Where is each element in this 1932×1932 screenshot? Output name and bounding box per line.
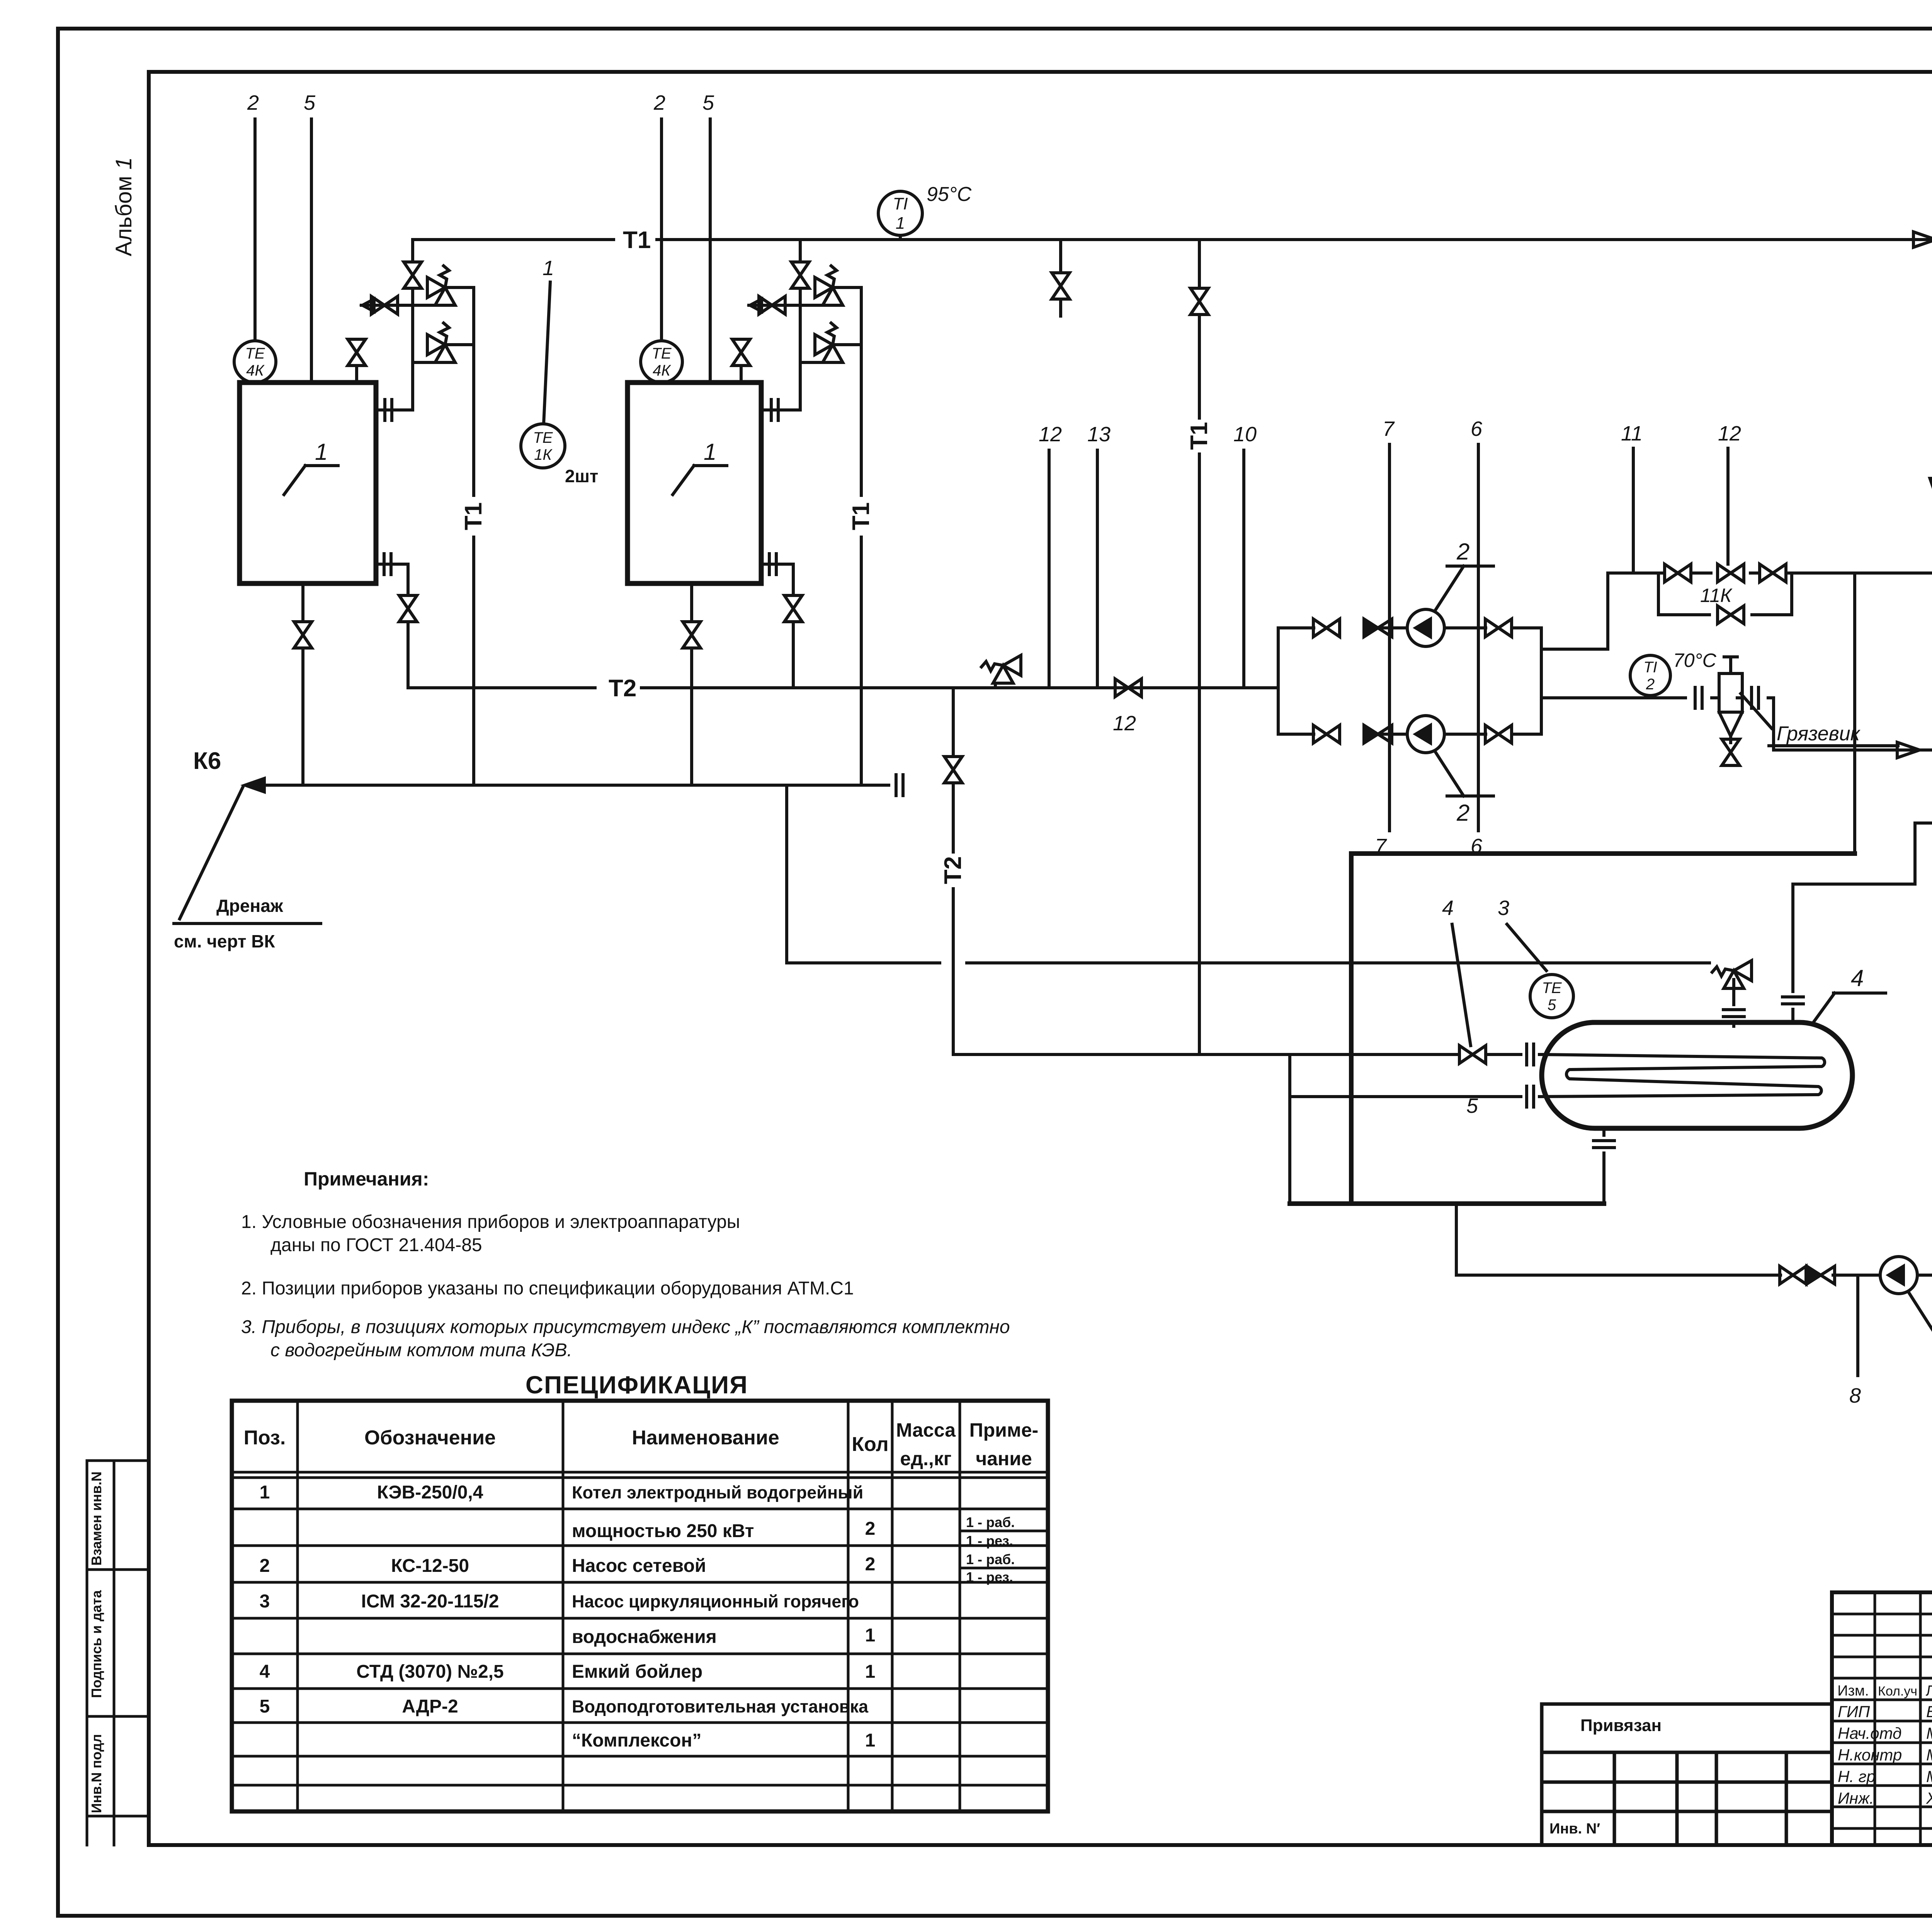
svg-text:11: 11 [1621, 422, 1643, 445]
circulation check valve [1807, 1266, 1835, 1284]
position line 10 [1233, 423, 1257, 688]
svg-text:4К: 4К [653, 362, 671, 379]
svg-text:1 - раб.: 1 - раб. [966, 1514, 1015, 1530]
svg-text:4: 4 [1851, 965, 1864, 991]
svg-text:Поз.: Поз. [244, 1427, 286, 1449]
position 4 tap [1442, 896, 1471, 1046]
svg-text:ГИП: ГИП [1838, 1702, 1870, 1721]
svg-text:1: 1 [260, 1482, 270, 1503]
T2 branch to tank coil [940, 688, 1542, 1065]
svg-text:2: 2 [653, 91, 665, 114]
pump 2 suction valve [1313, 725, 1340, 743]
svg-text:1: 1 [865, 1662, 876, 1682]
tank safety valve [1712, 961, 1752, 1026]
svg-text:Т2: Т2 [940, 856, 966, 884]
svg-text:мощностью 250 кВт: мощностью 250 кВт [572, 1521, 754, 1541]
svg-text:Кол.уч: Кол.уч [1878, 1684, 1917, 1699]
network pump 1 [1407, 609, 1444, 646]
boiler 2 top vent valve [732, 339, 750, 383]
svg-text:2: 2 [865, 1519, 876, 1539]
svg-text:2шт: 2шт [565, 466, 598, 486]
tank heating coil [1542, 1054, 1825, 1097]
boiler 1 top vent valve [348, 339, 366, 383]
svg-text:1: 1 [704, 439, 716, 465]
svg-text:Т1: Т1 [460, 502, 487, 530]
svg-text:Н. гр: Н. гр [1838, 1767, 1876, 1786]
svg-text:4: 4 [1442, 896, 1454, 920]
svg-text:ТЕ: ТЕ [245, 345, 265, 362]
T1 flow arrow left [1913, 232, 1932, 247]
pump 1 check valve [1364, 619, 1392, 637]
svg-text:2: 2 [1646, 676, 1655, 693]
svg-text:даны по ГОСТ 21.404-85: даны по ГОСТ 21.404-85 [270, 1235, 482, 1255]
pump 2 discharge valve [1485, 725, 1512, 743]
boiler 1 T1 riser with valve [404, 240, 422, 410]
K6 drain header [240, 775, 903, 796]
svg-text:5: 5 [260, 1696, 270, 1717]
boiler 2 line 5 [702, 91, 714, 383]
T3 hot water line [1915, 821, 1932, 825]
boiler 2 bottom outlet to T2 [761, 554, 802, 688]
pump 1 position callout [1436, 539, 1493, 609]
svg-text:Т1: Т1 [623, 227, 651, 253]
svg-text:IСМ 32-20-115/2: IСМ 32-20-115/2 [361, 1591, 499, 1612]
svg-text:Изм.: Изм. [1837, 1683, 1869, 1699]
storage tank [1542, 1022, 1852, 1128]
boiler 2 [628, 383, 761, 583]
svg-text:Бондорец: Бондорец [1926, 1702, 1932, 1721]
position line 13 [1087, 423, 1111, 688]
boiler 1 lower safety valve [413, 323, 474, 362]
TE5 instrument [1530, 975, 1573, 1018]
svg-text:Обозначение: Обозначение [364, 1427, 496, 1449]
svg-text:12: 12 [1113, 712, 1136, 735]
svg-text:водоснабжения: водоснабжения [572, 1627, 717, 1647]
svg-text:12: 12 [1039, 423, 1062, 446]
svg-text:5: 5 [1548, 997, 1556, 1014]
boiler 1 [240, 383, 376, 583]
suction branch to pump 3 [1456, 1204, 1880, 1275]
boiler 2 upper safety valve [800, 266, 861, 305]
T2 flow arrow right [1897, 742, 1920, 758]
svg-text:Н.контр: Н.контр [1838, 1746, 1902, 1764]
svg-text:4: 4 [260, 1662, 270, 1682]
svg-text:КС-12-50: КС-12-50 [391, 1556, 469, 1576]
svg-text:3. Приборы, в позициях которых: 3. Приборы, в позициях которых присутств… [241, 1317, 1010, 1337]
svg-text:Молчанов: Молчанов [1926, 1746, 1932, 1764]
boiler 2 line 2 [653, 91, 665, 341]
svg-text:2: 2 [1456, 800, 1469, 826]
svg-text:1: 1 [896, 214, 905, 233]
svg-text:1: 1 [865, 1730, 876, 1751]
svg-text:ТЕ: ТЕ [533, 429, 553, 446]
svg-text:Альбом 1: Альбом 1 [111, 157, 136, 256]
svg-text:5: 5 [702, 91, 714, 114]
svg-text:3: 3 [260, 1591, 270, 1612]
svg-text:см. черт ВК: см. черт ВК [174, 931, 275, 951]
svg-text:Инв. N′: Инв. N′ [1549, 1821, 1600, 1837]
svg-text:Молчанов: Молчанов [1926, 1724, 1932, 1742]
svg-text:1: 1 [543, 257, 554, 280]
boiler 2 lower safety valve [800, 323, 861, 362]
svg-text:Инв.N подл: Инв.N подл [88, 1734, 104, 1813]
left margin stamp boxes [87, 1461, 149, 1845]
boiler 1 TE4K [234, 341, 276, 383]
tank feed branch [1290, 1054, 1542, 1204]
svg-text:3: 3 [1498, 896, 1509, 920]
svg-text:1: 1 [865, 1625, 876, 1646]
pump 2 position callout [1436, 753, 1493, 826]
dosing unit feed arrow [1928, 468, 1932, 502]
tank position callout 4 [1812, 965, 1886, 1024]
svg-text:СТД (3070) №2,5: СТД (3070) №2,5 [356, 1662, 503, 1682]
boiler 1 outlet flange [376, 400, 413, 420]
svg-text:ТЕ: ТЕ [1542, 980, 1562, 997]
svg-text:ТI: ТI [1643, 659, 1657, 676]
boiler 2 position label [673, 439, 727, 495]
position 1 callout TE1K [543, 257, 554, 424]
svg-text:1 - рез.: 1 - рез. [966, 1533, 1013, 1549]
boiler 2 TE4K [641, 341, 682, 383]
svg-text:2: 2 [260, 1556, 270, 1576]
svg-text:Примечания:: Примечания: [304, 1168, 429, 1190]
svg-text:Котел электродный водогрейный: Котел электродный водогрейный [572, 1483, 863, 1502]
TE1K instrument [521, 424, 565, 468]
svg-text:10: 10 [1233, 423, 1257, 446]
svg-text:СПЕЦИФИКАЦИЯ: СПЕЦИФИКАЦИЯ [526, 1371, 748, 1399]
tank top nozzle to T3 [1782, 823, 1915, 1022]
svg-text:11К: 11К [1700, 585, 1733, 606]
thick transfer line [1290, 854, 1855, 1204]
svg-text:1: 1 [315, 439, 328, 465]
svg-text:1К: 1К [534, 446, 553, 463]
TI1 instrument [878, 191, 922, 240]
svg-text:Водоподготовительная установка: Водоподготовительная установка [572, 1697, 869, 1716]
svg-text:Т1: Т1 [848, 502, 874, 530]
svg-text:Харитонова: Харитонова [1926, 1789, 1932, 1807]
position line 11 [1621, 422, 1643, 573]
svg-text:1 - раб.: 1 - раб. [966, 1551, 1015, 1567]
TI2 instrument [1630, 655, 1670, 696]
svg-text:Насос циркуляционный горячего: Насос циркуляционный горячего [572, 1592, 859, 1611]
svg-text:Инж.: Инж. [1838, 1789, 1874, 1807]
svg-text:95°С: 95°С [927, 183, 972, 206]
boiler 2 T1 riser with valve [791, 240, 809, 410]
boiler 1 line 2 [247, 91, 259, 341]
position line 6 [1471, 417, 1483, 858]
svg-text:8: 8 [1849, 1384, 1861, 1407]
T2 header valve 12 [1113, 679, 1141, 735]
svg-text:Насос сетевой: Насос сетевой [572, 1556, 706, 1576]
title block revision grid [1832, 1592, 1932, 1845]
T1 riser lower run [1198, 963, 1201, 1054]
T2 return from consumer [1774, 698, 1932, 750]
mud filter [1719, 657, 1742, 765]
pump 3 position callout [1908, 1291, 1932, 1334]
vent valve on T1 header [1052, 240, 1070, 316]
svg-text:2: 2 [1456, 539, 1469, 565]
svg-text:ед.,кг: ед.,кг [900, 1448, 951, 1469]
svg-text:Митрофанова: Митрофанова [1926, 1767, 1932, 1786]
svg-text:с водогрейным котлом типа КЭВ.: с водогрейным котлом типа КЭВ. [270, 1340, 572, 1361]
manifold discharge line [1541, 687, 1774, 708]
svg-text:Масса: Масса [896, 1419, 956, 1441]
svg-text:Приме-: Приме- [969, 1419, 1039, 1441]
svg-text:чание: чание [976, 1448, 1032, 1469]
svg-text:ТI: ТI [893, 194, 908, 213]
position line 12b [1718, 422, 1741, 564]
svg-text:Т1: Т1 [1186, 422, 1213, 450]
svg-text:2: 2 [247, 91, 259, 114]
svg-text:Т2: Т2 [609, 675, 636, 702]
boiler 1 drain with valve [294, 583, 312, 785]
boiler 2 relief line T1 [848, 287, 874, 785]
pump 2 check valve [1364, 725, 1392, 743]
svg-text:1 - рез.: 1 - рез. [966, 1569, 1013, 1585]
pump 1 discharge valve [1485, 619, 1512, 637]
boiler 1 riser side valve [361, 296, 413, 314]
svg-text:Кол: Кол [852, 1433, 888, 1456]
tank bottom nozzle [1594, 1128, 1614, 1204]
position line 7 [1375, 417, 1395, 858]
T1 bypass riser [1186, 240, 1213, 963]
svg-text:70°С: 70°С [1673, 650, 1717, 671]
network pump 2 [1407, 716, 1444, 753]
pump manifold frame [1278, 628, 1541, 734]
position 8 tap [1849, 1275, 1861, 1407]
svg-text:12: 12 [1718, 422, 1741, 445]
T2 header safety valve [981, 655, 1021, 688]
boiler 1 upper safety valve [413, 266, 474, 305]
svg-text:Привязан: Привязан [1580, 1716, 1662, 1735]
pump 1 suction valve [1313, 619, 1340, 637]
svg-text:1. Условные обозначения прибор: 1. Условные обозначения приборов и элект… [241, 1212, 740, 1232]
boiler 1 relief line T1 [460, 287, 487, 785]
svg-text:Грязевик: Грязевик [1777, 723, 1861, 745]
svg-text:2. Позиции приборов указаны по: 2. Позиции приборов указаны по специфика… [241, 1278, 854, 1299]
K6 to tank feed line [787, 785, 1709, 963]
T2 return header [408, 686, 1278, 689]
circulation pump 3 [1880, 1257, 1932, 1294]
svg-text:Нач.отд: Нач.отд [1838, 1724, 1901, 1742]
svg-text:4К: 4К [246, 362, 265, 379]
mud filter label [1741, 694, 1898, 746]
boiler 2 riser side valve [749, 296, 800, 314]
svg-text:КЭВ-250/0,4: КЭВ-250/0,4 [377, 1482, 483, 1503]
boiler 2 drain with valve [683, 583, 701, 785]
B1 to transfer riser [1853, 573, 1856, 854]
svg-text:ТЕ: ТЕ [651, 345, 672, 362]
svg-text:К6: К6 [193, 748, 221, 774]
manifold to B1 link [1541, 573, 1608, 649]
svg-text:13: 13 [1087, 423, 1111, 446]
svg-text:Лист: Лист [1926, 1683, 1932, 1699]
drainage note callout [174, 787, 321, 951]
B1 line 11K bypass assembly [1608, 564, 1857, 624]
svg-text:Подпись и дата: Подпись и дата [88, 1590, 104, 1698]
svg-text:6: 6 [1471, 417, 1483, 440]
position 3 tap [1498, 896, 1546, 971]
specification table grid [232, 1401, 1048, 1811]
T1 supply header [413, 238, 1932, 241]
svg-text:7: 7 [1383, 417, 1395, 440]
svg-text:АДР-2: АДР-2 [402, 1696, 458, 1717]
svg-text:Дренаж: Дренаж [216, 896, 283, 916]
svg-text:Наименование: Наименование [632, 1427, 779, 1449]
boiler 2 outlet flange [761, 400, 800, 420]
svg-text:5: 5 [304, 91, 316, 114]
circulation suction valve [1780, 1266, 1806, 1284]
privyazan block [1542, 1704, 1832, 1845]
position line 12 [1039, 423, 1062, 688]
B1 makeup line [1857, 571, 1932, 575]
svg-text:Емкий бойлер: Емкий бойлер [572, 1662, 702, 1682]
svg-text:2: 2 [865, 1554, 876, 1575]
svg-text:“Комплексон”: “Комплексон” [572, 1730, 701, 1751]
boiler 1 position label [284, 439, 338, 495]
svg-text:Взамен инв.N: Взамен инв.N [88, 1471, 104, 1566]
boiler 1 bottom outlet to T2 [376, 554, 417, 688]
boiler 1 line 5 [304, 91, 316, 383]
